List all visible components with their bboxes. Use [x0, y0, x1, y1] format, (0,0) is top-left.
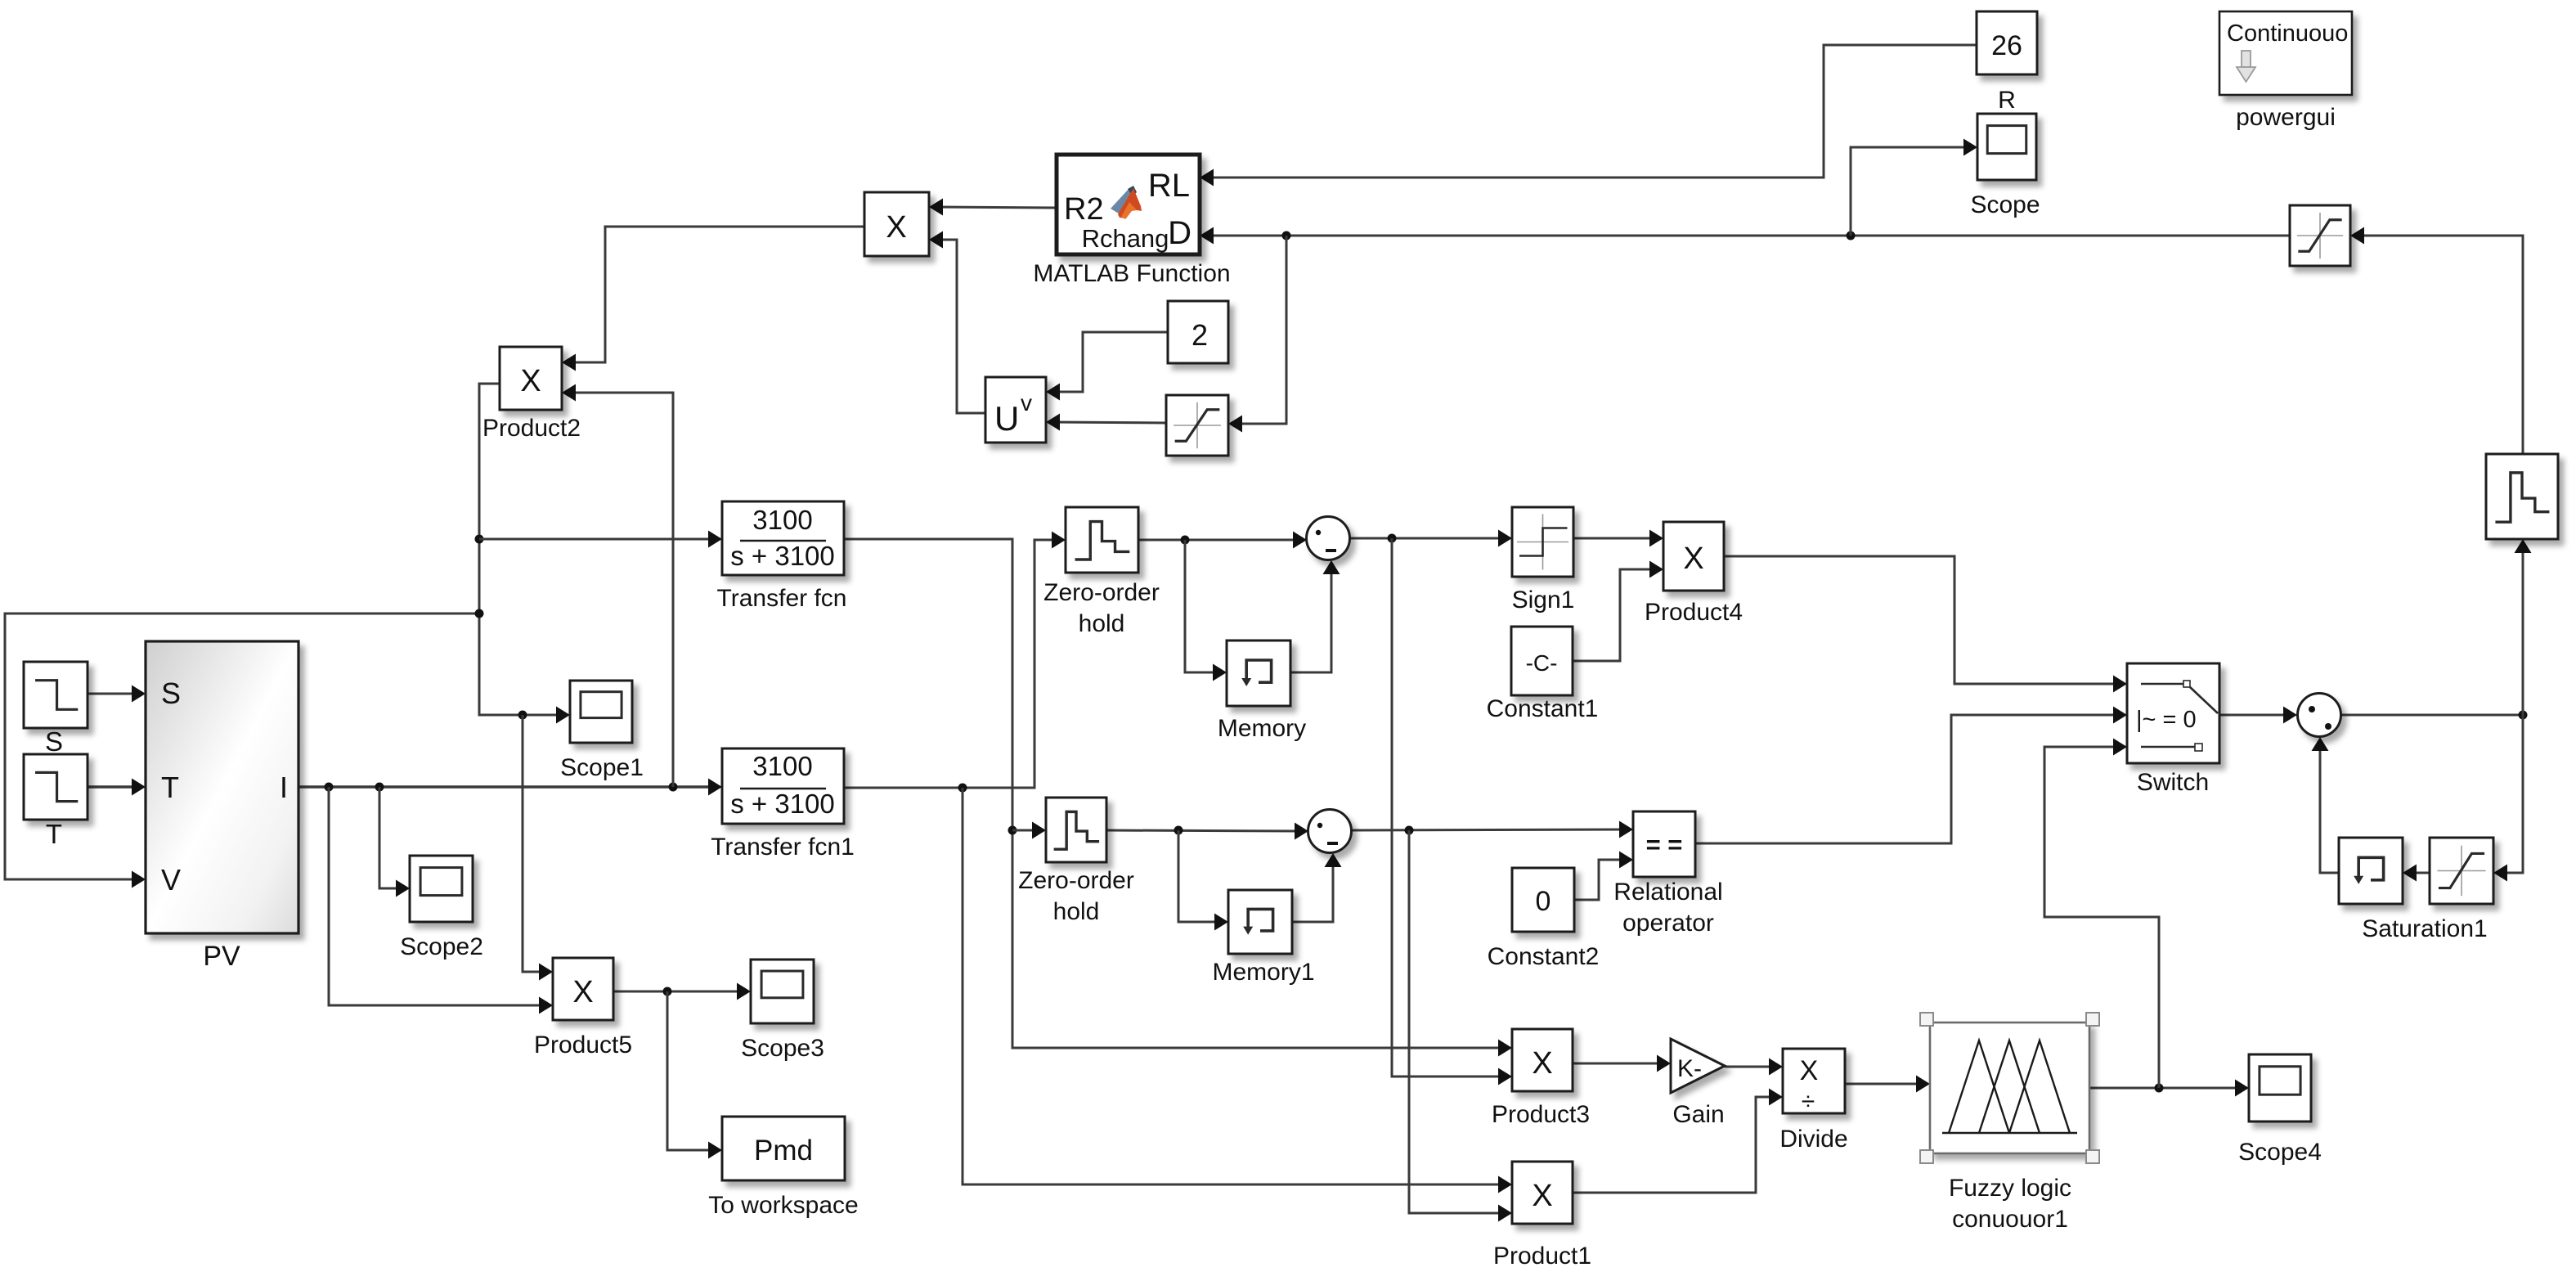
- svg-text:Scope: Scope: [1970, 191, 2040, 218]
- svg-text:hold: hold: [1053, 898, 1100, 925]
- wire feedback down to Saturation1 input: [2493, 715, 2523, 882]
- memory block Memory: [1227, 640, 1290, 706]
- product Product1: [1512, 1162, 1573, 1224]
- wire Constant2 output to Relational operator input 2: [1574, 852, 1633, 901]
- wire Constant1 output to Product4 input 2: [1573, 561, 1663, 662]
- svg-text:Sign1: Sign1: [1512, 587, 1575, 614]
- wire feedback up into staircase hold block: [2515, 539, 2532, 715]
- switch block: [2127, 663, 2219, 763]
- svg-text:3100: 3100: [752, 751, 812, 781]
- svg-text:R2: R2: [1064, 192, 1104, 227]
- svg-text:Transfer fcn1: Transfer fcn1: [711, 834, 855, 861]
- label Gain: [1672, 1101, 1724, 1128]
- wire PV I output bus to Transfer fcn1 input: [298, 779, 722, 796]
- node junction D-line to Scope: [1847, 231, 1856, 240]
- zero-order hold block lower: [1046, 798, 1106, 862]
- wire Transfer fcn1 output up to Zero-order hold 1 input: [844, 532, 1066, 789]
- svg-text:Switch: Switch: [2137, 769, 2209, 796]
- zero-order hold block upper: [1066, 507, 1138, 573]
- node junction Transfer fcn1 output to Product1: [958, 784, 967, 793]
- wire branch to Memory input: [1185, 540, 1227, 681]
- svg-text:Continuouo: Continuouo: [2227, 20, 2348, 47]
- svg-text:Gain: Gain: [1672, 1101, 1724, 1128]
- sum block C: [2298, 694, 2341, 737]
- label Memory: [1218, 715, 1306, 742]
- svg-text:X: X: [1532, 1046, 1552, 1081]
- svg-text:Zero-order: Zero-order: [1018, 867, 1134, 894]
- scope Scope top right: [1977, 114, 2036, 180]
- svg-text:2: 2: [1192, 318, 1208, 352]
- wire Product4 output to Switch input 1: [1724, 556, 2127, 693]
- svg-text:T: T: [161, 771, 179, 804]
- svg-text:hold: hold: [1079, 610, 1125, 637]
- node junction V-line to Product5: [518, 711, 527, 720]
- label MATLAB Function: [1033, 260, 1230, 287]
- scope Scope2: [410, 856, 473, 922]
- node junction fuzzy output to Switch: [2155, 1084, 2164, 1093]
- wire Fuzzy controller output to Scope4: [2090, 1080, 2249, 1097]
- wire I-bus branch down to Product5 input 2: [329, 787, 553, 1014]
- wire Gain output to Divide input 1: [1725, 1059, 1783, 1076]
- sum block A: [1307, 517, 1350, 560]
- wire Sum B output to Relational operator input 1: [1352, 821, 1633, 838]
- label To workspace: [708, 1192, 858, 1219]
- label Switch: [2137, 769, 2209, 796]
- wire Sum A output to Sign1: [1350, 530, 1512, 547]
- svg-text:K-: K-: [1677, 1055, 1702, 1082]
- powergui block: [2219, 11, 2352, 95]
- label Divide: [1779, 1126, 1847, 1153]
- svg-text:3100: 3100: [752, 505, 812, 535]
- label Product4: [1645, 599, 1743, 626]
- svg-text:Saturation1: Saturation1: [2362, 915, 2487, 942]
- label Product5: [534, 1032, 632, 1059]
- wire S step to PV S input: [88, 685, 146, 703]
- wire Transfer fcn output down to Product3 input 1: [844, 539, 1512, 1057]
- svg-text:s + 3100: s + 3100: [730, 541, 835, 571]
- wire V feedback loop from node V to PV V input: [5, 614, 479, 888]
- small saturation block: [1166, 395, 1228, 456]
- svg-text:Pmd: Pmd: [754, 1135, 813, 1166]
- wire Saturation1 output to flipped Memory input: [2403, 865, 2430, 882]
- svg-text:Constant2: Constant2: [1488, 943, 1600, 970]
- transfer function Transfer fcn: [722, 501, 844, 575]
- wire Memory1 output up to Sum B minus input: [1292, 853, 1342, 922]
- wire Switch output to Sum C: [2219, 707, 2297, 724]
- scope Scope1: [570, 681, 632, 743]
- wire branch down to Product3 input 2: [1392, 538, 1512, 1085]
- label S: [45, 726, 63, 757]
- wire MATLAB Function R2 output to Product X input 1: [929, 199, 1057, 216]
- product Product3: [1512, 1029, 1573, 1091]
- constant Constant1: [1511, 627, 1573, 695]
- wire branch down to Product1 input 2: [1409, 830, 1512, 1222]
- label Relational operator: [1613, 879, 1722, 937]
- svg-text:conuouor1: conuouor1: [1952, 1206, 2068, 1233]
- svg-text:Constant1: Constant1: [1487, 695, 1599, 722]
- wire branch up to Switch input 3: [2044, 739, 2159, 1089]
- wire Product1 output to Divide input 2: [1573, 1089, 1783, 1193]
- node junction I-bus to Product2: [669, 783, 678, 792]
- svg-text:To workspace: To workspace: [708, 1192, 858, 1219]
- node junction V-line to PV V loop: [475, 609, 484, 618]
- wire branch to Zero-order hold 2 input: [1012, 822, 1046, 839]
- math power block U^V flipped: [985, 377, 1046, 443]
- PV subsystem block: [146, 641, 298, 933]
- scope Scope3: [751, 960, 814, 1023]
- svg-text:Relational: Relational: [1613, 879, 1722, 906]
- svg-text:Scope4: Scope4: [2238, 1139, 2322, 1166]
- wire D-line branch to Scope: [1851, 139, 1977, 236]
- wire Product2 output down the V node line: [479, 384, 570, 724]
- label Constant2: [1488, 943, 1600, 970]
- label PV: [203, 941, 240, 972]
- wire Sign1 output to Product4 input 1: [1573, 530, 1663, 547]
- MATLAB Function block Rchang: [1057, 155, 1200, 254]
- svg-text:V: V: [161, 863, 181, 897]
- relational operator block: [1633, 811, 1695, 877]
- svg-text:RL: RL: [1148, 168, 1190, 204]
- node junction ZOH2 output to Memory1: [1174, 826, 1183, 835]
- svg-text:Product2: Product2: [482, 415, 581, 442]
- wire Memory output up to Sum A minus input: [1290, 560, 1340, 672]
- svg-text:MATLAB Function: MATLAB Function: [1033, 260, 1230, 287]
- label Zero-order hold lower: [1018, 867, 1134, 925]
- svg-text:powergui: powergui: [2236, 104, 2336, 131]
- svg-text:D: D: [1168, 215, 1192, 251]
- label T: [46, 819, 62, 849]
- node junction I-bus to Scope2: [375, 783, 384, 792]
- svg-text:Transfer fcn: Transfer fcn: [717, 585, 847, 612]
- svg-text:Scope1: Scope1: [560, 754, 644, 781]
- wire branch down to Product1 input 1: [963, 788, 1512, 1193]
- wire V-line branch to Transfer fcn input: [479, 531, 722, 548]
- label Constant1: [1487, 695, 1599, 722]
- label Product3: [1492, 1101, 1590, 1128]
- wire Relational operator output to Switch input 2: [1695, 707, 2127, 844]
- svg-text:Zero-order: Zero-order: [1043, 579, 1160, 606]
- label Scope2: [400, 933, 483, 960]
- wire Product X output to Product2 input 1: [562, 227, 864, 371]
- wire right Saturation output D-line to MATLAB Function D input: [1200, 227, 2290, 245]
- wire constant 26 to MATLAB Function RL input: [1200, 45, 1977, 187]
- wire D-line branch down to small Saturation input: [1228, 236, 1286, 433]
- label Product1: [1493, 1243, 1591, 1270]
- wire Zero-order hold 1 output to Sum A: [1138, 532, 1307, 549]
- label Fuzzy logic conuouor1: [1949, 1175, 2071, 1233]
- svg-text:0: 0: [1536, 886, 1551, 917]
- svg-text:I: I: [280, 771, 288, 804]
- wire Product3 output to Gain: [1573, 1055, 1671, 1072]
- svg-text:Divide: Divide: [1779, 1126, 1847, 1153]
- label Transfer fcn: [717, 585, 847, 612]
- node junction Sum A output to Product3: [1388, 534, 1397, 543]
- wire I-bus branch to Scope2: [379, 787, 410, 897]
- node junction I-bus to Product5: [325, 783, 334, 792]
- svg-text:operator: operator: [1622, 910, 1714, 937]
- wire U-power-V output to Product X input 2: [929, 231, 985, 414]
- node junction ZOH1 output to Memory: [1181, 536, 1190, 545]
- svg-text:Product4: Product4: [1645, 599, 1743, 626]
- step source S block: [24, 662, 88, 728]
- svg-text:R: R: [1998, 87, 2016, 114]
- constant Constant2: [1512, 868, 1574, 932]
- to-workspace block Pmd: [722, 1117, 845, 1180]
- label Saturation1: [2362, 915, 2487, 942]
- node junction right feedback: [2519, 711, 2528, 720]
- scope Scope4: [2249, 1054, 2311, 1121]
- svg-text:S: S: [161, 676, 181, 710]
- staircase hold block far right: [2486, 454, 2558, 539]
- memory block Memory1: [1228, 890, 1292, 954]
- svg-text:Rchang: Rchang: [1082, 224, 1169, 253]
- label Scope1: [560, 754, 644, 781]
- wire Zero-order hold 2 output to Sum B: [1106, 823, 1308, 840]
- svg-text:= =: = =: [1646, 830, 1683, 859]
- label Transfer fcn1: [711, 834, 855, 861]
- svg-text:Scope2: Scope2: [400, 933, 483, 960]
- label Zero-order hold upper: [1043, 579, 1160, 637]
- label Scope3: [741, 1035, 824, 1062]
- label Sign1: [1512, 587, 1575, 614]
- product Product5: [553, 958, 613, 1020]
- svg-text:U: U: [994, 399, 1019, 438]
- saturation block Saturation1: [2430, 838, 2493, 904]
- sum block B: [1308, 810, 1352, 853]
- sign block Sign1: [1512, 507, 1573, 577]
- svg-text:Memory: Memory: [1218, 715, 1306, 742]
- svg-text:|~ = 0: |~ = 0: [2136, 707, 2197, 733]
- divide block: [1783, 1049, 1845, 1115]
- wire T step to PV T input: [88, 779, 146, 796]
- label Memory1: [1212, 959, 1314, 986]
- svg-text:Memory1: Memory1: [1212, 959, 1314, 986]
- wire staircase hold output to right Saturation input: [2350, 227, 2523, 455]
- label Scope: [1970, 191, 2040, 218]
- step source T block: [24, 754, 88, 820]
- product Product2 flipped: [500, 347, 562, 410]
- transfer function Transfer fcn1: [722, 748, 844, 824]
- svg-text:X: X: [572, 975, 593, 1009]
- svg-text:Scope3: Scope3: [741, 1035, 824, 1062]
- wire branch to Memory1 input: [1178, 830, 1228, 931]
- label Product2: [482, 415, 581, 442]
- right saturation block on D line: [2290, 205, 2350, 266]
- wire Product5 output branch to Pmd workspace: [667, 991, 722, 1159]
- label Scope4: [2238, 1139, 2322, 1166]
- wire flipped Memory output up to Sum C second input: [2312, 737, 2340, 873]
- wire V-line branch down to Product5 input 1: [523, 715, 553, 981]
- node junction Transfer fcn output to Zero-order hold 2: [1008, 826, 1017, 835]
- gain block triangle: [1671, 1039, 1725, 1093]
- wire Sum C output to right feedback node: [2341, 714, 2523, 717]
- svg-text:Fuzzy logic: Fuzzy logic: [1949, 1175, 2071, 1202]
- svg-text:PV: PV: [203, 941, 240, 972]
- node junction Product5 output: [663, 987, 672, 996]
- wire small Saturation output to U-power-V input 2: [1046, 414, 1166, 431]
- wire I-bus branch up to Product2 input 2: [562, 384, 673, 788]
- svg-text:Product3: Product3: [1492, 1101, 1590, 1128]
- svg-text:÷: ÷: [1802, 1088, 1815, 1115]
- svg-text:s + 3100: s + 3100: [730, 789, 835, 819]
- node junction D-line to small saturation: [1282, 231, 1291, 240]
- svg-text:v: v: [1021, 390, 1032, 416]
- svg-text:X: X: [1683, 542, 1703, 576]
- label R: [1998, 87, 2016, 114]
- node junction Sum B output to Product1: [1405, 826, 1414, 835]
- constant 2 block: [1168, 301, 1228, 363]
- svg-text:Product1: Product1: [1493, 1243, 1591, 1270]
- svg-text:X: X: [1800, 1055, 1819, 1086]
- svg-text:X: X: [1532, 1179, 1552, 1213]
- constant 26 block: [1977, 11, 2037, 74]
- wire Product5 output to Scope3: [613, 983, 751, 1000]
- svg-text:X: X: [886, 210, 906, 245]
- svg-text:Product5: Product5: [534, 1032, 632, 1059]
- wire Divide output to Fuzzy logic controller: [1845, 1076, 1930, 1093]
- fuzzy logic controller block: [1920, 1013, 2099, 1163]
- svg-text:X: X: [520, 364, 541, 398]
- product X flipped near MATLAB Function: [864, 192, 929, 256]
- flipped memory block right: [2339, 838, 2403, 904]
- svg-text:S: S: [45, 726, 63, 757]
- svg-text:-C-: -C-: [1526, 650, 1558, 676]
- wire constant 2 to U-power-V input 1: [1046, 332, 1168, 401]
- svg-text:T: T: [46, 819, 62, 849]
- node junction V-line to Transfer fcn: [475, 535, 484, 544]
- product Product4: [1663, 522, 1724, 591]
- svg-text:26: 26: [1991, 30, 2022, 61]
- label powergui: [2236, 104, 2336, 131]
